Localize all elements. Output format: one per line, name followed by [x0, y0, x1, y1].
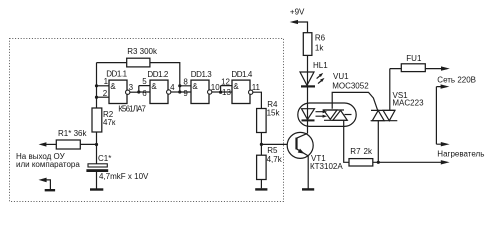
svg-text:4,7mkF x 10V: 4,7mkF x 10V [99, 172, 149, 181]
svg-text:+9V: +9V [290, 7, 305, 16]
svg-text:К561ЛА7: К561ЛА7 [118, 105, 146, 114]
svg-text:4: 4 [170, 83, 175, 92]
svg-text:R7: R7 [350, 147, 361, 156]
svg-text:&: & [151, 82, 157, 91]
svg-text:HL1: HL1 [313, 61, 328, 70]
svg-text:15k: 15k [267, 108, 281, 117]
svg-text:R6: R6 [315, 34, 326, 43]
svg-text:DD1.4: DD1.4 [231, 70, 252, 79]
svg-text:DD1.1: DD1.1 [106, 70, 127, 79]
svg-text:12: 12 [221, 78, 230, 87]
svg-text:5: 5 [142, 77, 147, 86]
svg-text:&: & [110, 82, 116, 91]
svg-text:8: 8 [183, 77, 188, 86]
svg-text:1k: 1k [315, 44, 324, 53]
svg-text:3: 3 [129, 83, 134, 92]
svg-text:DD1.3: DD1.3 [191, 70, 212, 79]
svg-text:2k: 2k [364, 147, 373, 156]
svg-text:1: 1 [104, 77, 109, 86]
svg-text:&: & [192, 82, 198, 91]
svg-text:MAC223: MAC223 [392, 98, 424, 107]
svg-text:&: & [233, 82, 239, 91]
svg-text:DD1.2: DD1.2 [147, 70, 168, 79]
svg-text:9: 9 [183, 89, 188, 98]
svg-text:R3 300k: R3 300k [127, 47, 158, 56]
svg-text:VU1: VU1 [333, 72, 349, 81]
svg-text:6: 6 [142, 89, 147, 98]
svg-text:4,7k: 4,7k [267, 155, 283, 164]
svg-text:FU1: FU1 [406, 54, 422, 63]
svg-text:Нагреватель: Нагреватель [437, 150, 484, 159]
svg-text:КТ3102А: КТ3102А [310, 162, 343, 171]
svg-text:47к: 47к [103, 118, 116, 127]
svg-text:Сеть 220В: Сеть 220В [437, 76, 476, 85]
svg-text:10: 10 [211, 83, 220, 92]
svg-text:C1*: C1* [98, 154, 111, 163]
svg-text:11: 11 [252, 83, 261, 92]
svg-text:R1* 36k: R1* 36k [58, 129, 87, 138]
svg-text:MOC3052: MOC3052 [332, 81, 369, 90]
svg-text:или компаратора: или компаратора [16, 160, 80, 169]
svg-text:13: 13 [222, 88, 231, 97]
svg-text:R5: R5 [267, 146, 278, 155]
svg-text:2: 2 [103, 89, 108, 98]
